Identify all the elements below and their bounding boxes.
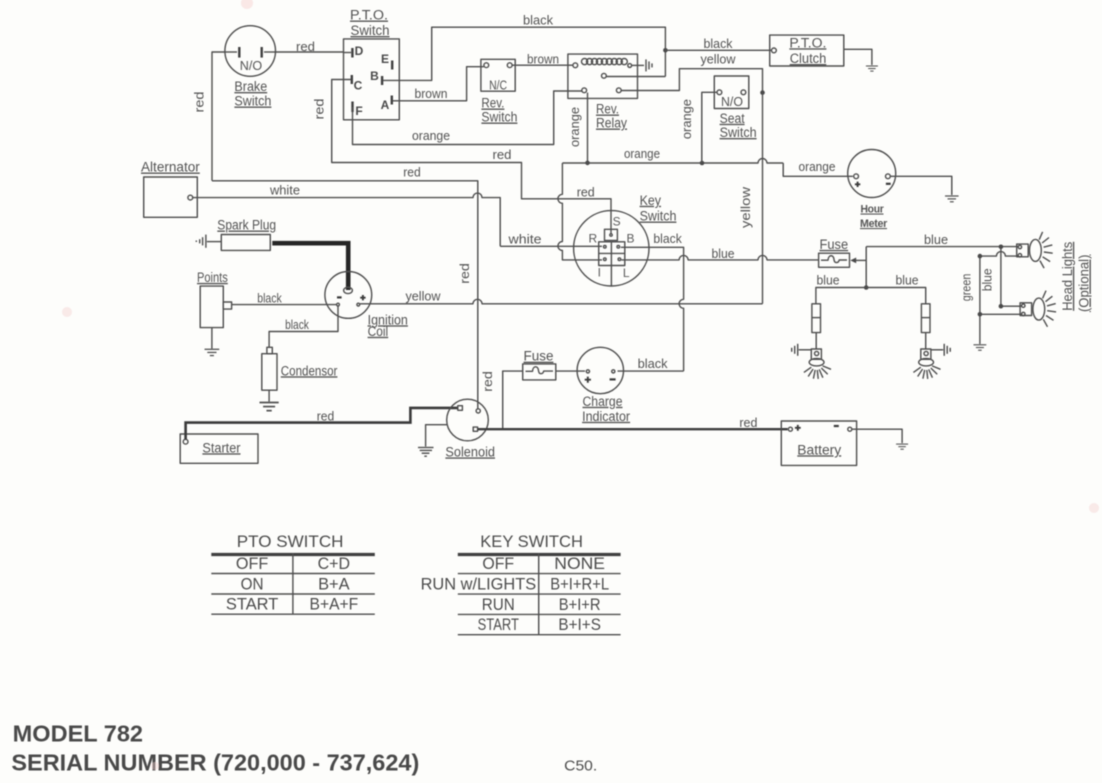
- svg-text:Meter: Meter: [860, 218, 888, 230]
- wire: battery - to ground: [852, 429, 902, 443]
- svg-text:white: white: [269, 183, 300, 198]
- wire green: headlight grounds: [980, 252, 1022, 344]
- wire orange: PTO F down and to relay contact: [353, 91, 582, 145]
- svg-text:blue: blue: [817, 272, 840, 287]
- wire blue: lamp bus left: [816, 272, 866, 303]
- wire brown: Rev. Switch to relay coil: [512, 52, 573, 67]
- wire red: brake switch left down to red bus: [212, 52, 226, 181]
- wire blue: key switch L to fuse: [621, 246, 818, 261]
- wire blue: riser to headlight bus: [865, 247, 867, 288]
- node junction green top: [978, 254, 983, 259]
- svg-text:yellow: yellow: [701, 52, 737, 67]
- fuse F1 (head lights): [819, 237, 850, 267]
- title SERIAL NUMBER: [11, 750, 419, 776]
- svg-text:Switch: Switch: [640, 209, 677, 224]
- svg-text:brown: brown: [415, 86, 448, 101]
- svg-text:B+I+R+L: B+I+R+L: [550, 574, 609, 593]
- svg-text:C: C: [354, 79, 363, 93]
- battery BT1: [781, 421, 856, 465]
- svg-text:N/O: N/O: [240, 58, 262, 73]
- svg-text:RUN w/LIGHTS: RUN w/LIGHTS: [421, 574, 537, 593]
- capacitor Condensor: [262, 347, 338, 390]
- relay common contact: [602, 73, 607, 78]
- wire red: solenoid to battery +: [478, 415, 788, 430]
- svg-text:OFF: OFF: [236, 554, 268, 573]
- PTO switch pin E: [381, 52, 392, 70]
- node junction orange bus / relay drop: [585, 161, 590, 166]
- meter Charge Indicator: [577, 347, 630, 424]
- lamp DS2 (right dash lamp): [913, 304, 950, 379]
- wire brown: PTO A to Rev. Switch: [393, 67, 484, 101]
- node junction black/clutch: [663, 48, 668, 53]
- svg-text:Relay: Relay: [596, 116, 627, 131]
- wire black: points to ignition coil -: [232, 290, 337, 305]
- switch SW5 Key Switch: [574, 193, 677, 286]
- svg-text:blue: blue: [896, 272, 919, 287]
- svg-text:red: red: [577, 185, 595, 200]
- label black (charge): [638, 356, 668, 371]
- node junction blue hl2: [999, 304, 1004, 309]
- wire orange: relay contact down to orange bus: [587, 93, 589, 163]
- points: [197, 270, 232, 328]
- svg-text:C+D: C+D: [318, 554, 350, 573]
- label red (rotated, brake vertical): [192, 92, 207, 113]
- svg-text:OFF: OFF: [482, 554, 514, 573]
- wire: condensor to ground: [268, 390, 270, 401]
- svg-text:orange: orange: [679, 99, 694, 139]
- lamp DS1 (left dash lamp): [792, 304, 831, 379]
- svg-text:B+A: B+A: [318, 574, 350, 593]
- fuse F2 (charge circuit): [523, 349, 556, 380]
- node junction blue headlight drop: [999, 245, 1004, 250]
- svg-text:R: R: [588, 232, 597, 246]
- svg-text:blue: blue: [712, 246, 735, 261]
- svg-text:black: black: [285, 317, 309, 332]
- svg-text:PTO SWITCH: PTO SWITCH: [237, 532, 344, 551]
- wire orange: bus down to key switch I: [558, 163, 602, 260]
- svg-text:blue: blue: [924, 232, 948, 247]
- label red (C-S wire): [493, 147, 512, 162]
- svg-text:D: D: [355, 44, 364, 58]
- label C50.: [564, 758, 597, 775]
- relay K1 Rev. Relay: [568, 54, 644, 130]
- PTO switch pin F: [353, 102, 363, 119]
- label red (rotated, solenoid riser upper): [457, 263, 472, 284]
- ground (battery): [896, 444, 908, 449]
- svg-text:white: white: [507, 232, 541, 247]
- svg-text:I: I: [598, 266, 601, 280]
- svg-text:B+A+F: B+A+F: [310, 595, 359, 614]
- wire blue: lamp bus right: [866, 272, 926, 303]
- svg-text:red: red: [480, 371, 495, 392]
- wire blue: headlight feed to fuse (arrow): [850, 258, 866, 264]
- svg-text:Battery: Battery: [797, 442, 841, 457]
- svg-text:C50.: C50.: [564, 758, 597, 775]
- svg-text:red: red: [403, 165, 421, 180]
- solenoid: [445, 399, 495, 459]
- svg-text:Brake: Brake: [234, 79, 267, 94]
- wire: hour meter - to ground: [891, 176, 952, 195]
- wire black: ignition coil - to condensor: [269, 306, 338, 347]
- title MODEL 782: [13, 721, 143, 747]
- meter M1 Hour Meter: [848, 150, 896, 231]
- wire black: junction to P.T.O. clutch: [665, 36, 771, 51]
- label green (rotated): [959, 274, 974, 302]
- wire black: PTO B up and across to junction: [383, 27, 666, 80]
- svg-text:Switch: Switch: [351, 23, 390, 38]
- switch SW2 P.T.O. Switch: [344, 8, 400, 120]
- lamp E2 head light lower: [1020, 291, 1056, 327]
- label yellow (ignition coil): [406, 289, 442, 304]
- svg-text:orange: orange: [799, 159, 836, 174]
- switch SW3 Rev. Switch (N/C): [481, 59, 518, 124]
- node junction orange bus / seat switch drop: [700, 161, 705, 166]
- spark plug: [196, 218, 277, 251]
- svg-text:Solenoid: Solenoid: [445, 444, 495, 459]
- svg-text:N/C: N/C: [489, 78, 507, 93]
- svg-text:brown: brown: [527, 52, 559, 67]
- label red (near key switch): [577, 185, 595, 200]
- wire red: PTO C to key switch S: [332, 80, 611, 234]
- svg-text:Switch: Switch: [234, 94, 271, 109]
- svg-text:B+I+R: B+I+R: [559, 595, 601, 614]
- svg-text:KEY SWITCH: KEY SWITCH: [480, 532, 583, 551]
- label blue (rotated, headlights): [979, 268, 994, 291]
- wire: relay common contact to black vertical: [606, 76, 665, 78]
- PTO switch pin C: [352, 75, 363, 93]
- node junction blue bus: [864, 285, 869, 290]
- svg-text:orange: orange: [624, 146, 660, 161]
- svg-text:SERIAL NUMBER (720,000 - 737,6: SERIAL NUMBER (720,000 - 737,624): [11, 750, 419, 776]
- motor Starter: [180, 434, 258, 463]
- svg-text:RUN: RUN: [482, 595, 515, 614]
- svg-text:Starter: Starter: [202, 440, 241, 455]
- wire red bus: brake drop to solenoid: [212, 165, 478, 409]
- svg-text:Rev.: Rev.: [596, 102, 619, 117]
- wire: solenoid to ground: [426, 425, 447, 447]
- svg-text:Clutch: Clutch: [790, 51, 827, 66]
- switch SW1 Brake Switch (N/O): [225, 26, 276, 109]
- wire blue: drop to head light 2: [1001, 247, 1022, 306]
- wire: points to ground: [211, 328, 213, 349]
- svg-text:B: B: [626, 232, 634, 246]
- wire orange bus: to hour meter: [562, 146, 852, 176]
- lamp E1 head light upper: [1017, 232, 1053, 268]
- svg-text:orange: orange: [567, 107, 582, 147]
- svg-text:red: red: [739, 415, 757, 430]
- svg-text:E: E: [381, 52, 389, 66]
- label black (top): [523, 13, 553, 28]
- ground (PTO clutch): [866, 66, 878, 71]
- svg-text:Spark Plug: Spark Plug: [217, 218, 276, 233]
- svg-text:Alternator: Alternator: [141, 160, 200, 175]
- node junction yellow / seat switch right: [760, 90, 765, 95]
- svg-text:red: red: [296, 39, 315, 54]
- node junction green bottom: [978, 312, 983, 317]
- wire: fuse to charge indicator +: [556, 370, 585, 372]
- svg-text:Seat: Seat: [720, 111, 745, 126]
- wire orange: seat switch left to orange bus: [702, 92, 717, 163]
- svg-text:red: red: [317, 409, 335, 424]
- label yellow (rotated): [738, 186, 753, 228]
- svg-text:NONE: NONE: [554, 554, 605, 573]
- relay N.O. contact right: [616, 88, 621, 93]
- svg-text:S: S: [613, 215, 621, 229]
- coil Ignition Coil: [325, 272, 408, 339]
- svg-text:ON: ON: [241, 574, 264, 593]
- ground (solenoid): [418, 448, 434, 457]
- svg-text:black: black: [523, 13, 553, 28]
- svg-text:black: black: [638, 356, 668, 371]
- svg-text:MODEL 782: MODEL 782: [13, 721, 143, 747]
- svg-text:Switch: Switch: [481, 110, 517, 125]
- svg-text:Coil: Coil: [368, 324, 389, 339]
- label orange (rotated, relay drop): [567, 107, 582, 147]
- wire black: charge indicator - to key switch B: [618, 231, 684, 371]
- svg-text:yellow: yellow: [406, 289, 442, 304]
- PTO switch pin B: [370, 69, 382, 85]
- ground (hour meter): [945, 196, 959, 202]
- svg-text:(Optional): (Optional): [1077, 255, 1092, 313]
- PTO switch pin D: [344, 44, 364, 58]
- wire blue: top bus to head light 1: [866, 232, 1018, 247]
- svg-text:Fuse: Fuse: [820, 237, 849, 252]
- svg-text:Indicator: Indicator: [582, 409, 630, 424]
- label red (rotated, solenoid riser lower): [480, 371, 495, 392]
- svg-text:Points: Points: [197, 270, 228, 285]
- svg-text:P.T.O.: P.T.O.: [350, 8, 388, 23]
- wire white: alternator to key switch R: [193, 183, 602, 247]
- svg-text:Switch: Switch: [720, 125, 757, 140]
- svg-text:START: START: [226, 595, 278, 614]
- wire red thick: starter to solenoid: [186, 408, 458, 440]
- svg-text:A: A: [381, 98, 390, 112]
- svg-text:black: black: [653, 231, 682, 246]
- svg-text:P.T.O.: P.T.O.: [789, 35, 826, 50]
- table PTO SWITCH: [211, 532, 374, 614]
- wire red: solenoid to fuse: [478, 371, 523, 429]
- svg-text:orange: orange: [412, 128, 450, 143]
- svg-text:L: L: [623, 266, 630, 280]
- svg-text:blue: blue: [979, 268, 994, 291]
- svg-text:N/O: N/O: [721, 94, 743, 109]
- wire red: brake switch to PTO switch D: [275, 39, 344, 54]
- label orange (rotated, seat drop): [679, 99, 694, 139]
- wire yellow: relay contact to seat switch: [621, 52, 762, 93]
- svg-text:Head Lights: Head Lights: [1060, 242, 1075, 311]
- ground (condensor): [260, 403, 279, 411]
- svg-text:B: B: [370, 69, 379, 83]
- svg-text:red: red: [457, 263, 472, 284]
- svg-text:red: red: [493, 147, 512, 162]
- switch SW4 Seat Switch (N/O): [714, 76, 756, 140]
- PTO switch pin A: [381, 96, 392, 113]
- table KEY SWITCH: [421, 532, 621, 635]
- svg-text:F: F: [355, 104, 362, 118]
- svg-text:Key: Key: [640, 193, 662, 208]
- label red (rotated, C wire): [312, 99, 327, 120]
- svg-text:Condensor: Condensor: [281, 363, 338, 378]
- wire: clutch to ground: [844, 49, 872, 65]
- svg-text:B+I+S: B+I+S: [558, 615, 601, 634]
- label Head Lights (rotated): [1060, 242, 1092, 312]
- svg-text:Charge: Charge: [583, 394, 623, 409]
- svg-text:red: red: [192, 92, 207, 113]
- svg-text:black: black: [257, 290, 282, 305]
- svg-text:yellow: yellow: [738, 186, 753, 228]
- svg-text:green: green: [959, 274, 974, 302]
- svg-text:black: black: [704, 36, 733, 51]
- generator Alternator: [141, 160, 200, 218]
- wire thick: spark plug to ignition coil: [272, 243, 348, 290]
- wire yellow bus: to ignition coil +: [360, 299, 763, 304]
- wire yellow: seat switch down to yellow bus: [762, 93, 764, 304]
- ground (points): [205, 349, 220, 355]
- svg-text:START: START: [478, 615, 519, 634]
- svg-text:Rev.: Rev.: [481, 96, 504, 111]
- relay N.O. contact left: [582, 88, 587, 93]
- ground (relay coil): [646, 59, 652, 71]
- svg-text:Hour: Hour: [861, 204, 885, 216]
- svg-text:red: red: [312, 99, 327, 120]
- actuator PTO Clutch: [770, 35, 844, 66]
- ground (head lights): [974, 345, 987, 350]
- svg-text:Fuse: Fuse: [524, 349, 554, 364]
